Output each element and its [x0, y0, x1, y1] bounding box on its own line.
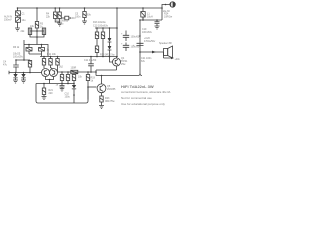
- ground below C5: [82, 21, 87, 24]
- resistor R18: [71, 70, 78, 73]
- inductor L1: [142, 8, 144, 12]
- svg-text:1k: 1k: [91, 80, 94, 83]
- capacitor C5: [84, 8, 86, 12]
- svg-text:10k: 10k: [30, 25, 35, 28]
- resistor R21: [43, 84, 45, 89]
- wire below R6 R7: [29, 54, 42, 57]
- ground below D1: [13, 80, 18, 83]
- wire Q4 emitter row: [96, 66, 117, 76]
- capacitor C20: [137, 43, 144, 45]
- wire output node: [140, 17, 162, 20]
- diode D2: [21, 74, 25, 78]
- diode D4: [108, 46, 112, 50]
- wire Q4 base: [110, 57, 113, 62]
- connector J1 input jack: [17, 8, 19, 11]
- svg-text:C13 100n/63v: C13 100n/63v: [93, 25, 109, 28]
- wire top supply rail: [18, 7, 163, 9]
- resistor R20b: [73, 73, 75, 76]
- resistor R1: [54, 8, 56, 12]
- capacitor C22 zobel: [155, 20, 160, 26]
- svg-text:HiFi TdA22xL 3W: HiFi TdA22xL 3W: [121, 84, 154, 89]
- wire Q5 base: [88, 86, 97, 88]
- resistor R5 bridge right: [42, 28, 45, 35]
- svg-text:C1: C1: [22, 13, 26, 16]
- connector output terminal: [170, 2, 175, 7]
- ground below R23: [99, 106, 104, 109]
- capacitor C2: [61, 17, 65, 19]
- svg-text:4700u/50v: 4700u/50v: [144, 40, 156, 43]
- wire left bias column: [16, 45, 30, 61]
- diode arrow on speaker wire: [152, 51, 156, 54]
- wire mid rail: [40, 56, 117, 58]
- svg-text:R6 1k: R6 1k: [13, 46, 20, 49]
- resistor R20: [67, 72, 69, 75]
- wire bridge arms: [30, 28, 44, 35]
- wire driver output row: [58, 71, 97, 73]
- svg-text:10k: 10k: [78, 76, 83, 79]
- svg-text:R11 10k: R11 10k: [47, 53, 57, 56]
- svg-text:0R47/5w: 0R47/5w: [105, 100, 115, 103]
- capacitor C17: [123, 43, 129, 52]
- svg-text:22k: 22k: [21, 30, 26, 33]
- svg-text:Speaker 8R: Speaker 8R: [159, 42, 172, 45]
- resistor R10: [57, 57, 59, 59]
- svg-text:Use for educational purpose on: Use for educational purpose only: [121, 102, 165, 106]
- diode D3: [109, 28, 111, 38]
- svg-text:22k: 22k: [46, 16, 51, 19]
- wire feedback mid: [24, 45, 48, 57]
- resistor R23 emitter: [101, 93, 103, 96]
- transistor Q4: [113, 58, 121, 66]
- svg-text:1k: 1k: [56, 84, 59, 87]
- svg-text:63v: 63v: [87, 14, 92, 17]
- svg-text:100u/35v: 100u/35v: [13, 56, 24, 59]
- transistor Q5: [101, 76, 103, 85]
- capacitor C3: [59, 8, 61, 12]
- wire bridge bottom: [30, 31, 44, 45]
- resistor R5b: [29, 60, 31, 62]
- capacitor C16: [123, 31, 129, 42]
- svg-text:10uH: 10uH: [147, 16, 153, 19]
- svg-text:tda 30: tda 30: [163, 10, 170, 13]
- wire lower bias row: [36, 83, 74, 85]
- svg-text:100n: 100n: [75, 16, 81, 19]
- transistor Q1: [42, 69, 50, 77]
- wire rail dropper: [116, 8, 118, 57]
- svg-text:+: +: [121, 33, 123, 36]
- svg-text:C11 47u/50: C11 47u/50: [84, 59, 97, 62]
- capacitor C9 ground x62: [60, 86, 65, 92]
- resistor R22 feedback: [87, 72, 89, 75]
- resistor R3: [36, 8, 38, 22]
- node top rail junctions: [17, 7, 163, 9]
- svg-text:R18 0R22 5w: R18 0R22 5w: [100, 54, 115, 57]
- svg-text:100n/63v: 100n/63v: [142, 31, 153, 34]
- capacitor C4: [13, 60, 19, 73]
- svg-text:2k2: 2k2: [59, 66, 64, 69]
- wire collector rail y75.5: [96, 74, 140, 76]
- svg-text:Not for commercial use: Not for commercial use: [121, 96, 152, 100]
- svg-text:150mV: 150mV: [4, 19, 12, 22]
- capacitor C11: [88, 57, 94, 73]
- ground below C3: [57, 23, 62, 26]
- ground below P1: [15, 28, 20, 31]
- wire bottom feedback loop: [36, 84, 88, 104]
- ground zobel: [155, 26, 160, 29]
- svg-text:10R/3w: 10R/3w: [164, 16, 172, 19]
- ground below D2: [21, 80, 26, 83]
- svg-text:2N3055: 2N3055: [107, 88, 116, 91]
- svg-text:63v: 63v: [141, 60, 146, 63]
- wire sub rail: [95, 27, 117, 29]
- wire speaker branch vertical: [140, 20, 142, 76]
- transistor Q2: [50, 69, 58, 77]
- ground below R21: [42, 97, 47, 100]
- wire supply arrow: [164, 52, 172, 58]
- resistor R4 bridge left: [28, 28, 31, 35]
- resistor R7: [41, 45, 43, 48]
- resistor R8: [43, 57, 45, 59]
- svg-text:47u: 47u: [3, 64, 8, 67]
- wire to output terminal: [162, 5, 170, 21]
- wire Q4 collector: [116, 57, 118, 59]
- svg-text:100u/63v: 100u/63v: [131, 36, 142, 39]
- resistor R6: [28, 45, 30, 48]
- svg-text:1k: 1k: [47, 49, 50, 52]
- node bridge center: [36, 30, 38, 32]
- svg-text:25w: 25w: [121, 63, 126, 66]
- resistor R19: [61, 72, 63, 75]
- resistor R9: [50, 57, 52, 59]
- svg-text:220: 220: [49, 92, 54, 95]
- resistor R16: [102, 28, 104, 32]
- diode D5: [73, 81, 75, 86]
- svg-text:100R: 100R: [71, 67, 77, 70]
- resistor R15: [95, 46, 98, 53]
- wire Q1 Q2 emitters: [46, 77, 54, 84]
- svg-text:100u: 100u: [65, 96, 71, 99]
- svg-text:10u: 10u: [22, 19, 27, 22]
- svg-text:100u: 100u: [58, 23, 64, 26]
- svg-text:+40v: +40v: [175, 58, 181, 61]
- diode D1: [13, 74, 17, 78]
- wire speaker feed: [140, 51, 164, 53]
- labels: tiny component values: [3, 10, 181, 103]
- svg-text:+: +: [121, 43, 123, 46]
- svg-text:ca tranzistori Germaniu, alime: ca tranzistori Germaniu, alimentare 40v-…: [121, 90, 171, 94]
- potentiometer P1 volume: [16, 17, 21, 22]
- speaker LS1: [164, 49, 168, 56]
- resistor R14: [96, 28, 98, 32]
- wire input pair node: [9, 71, 42, 75]
